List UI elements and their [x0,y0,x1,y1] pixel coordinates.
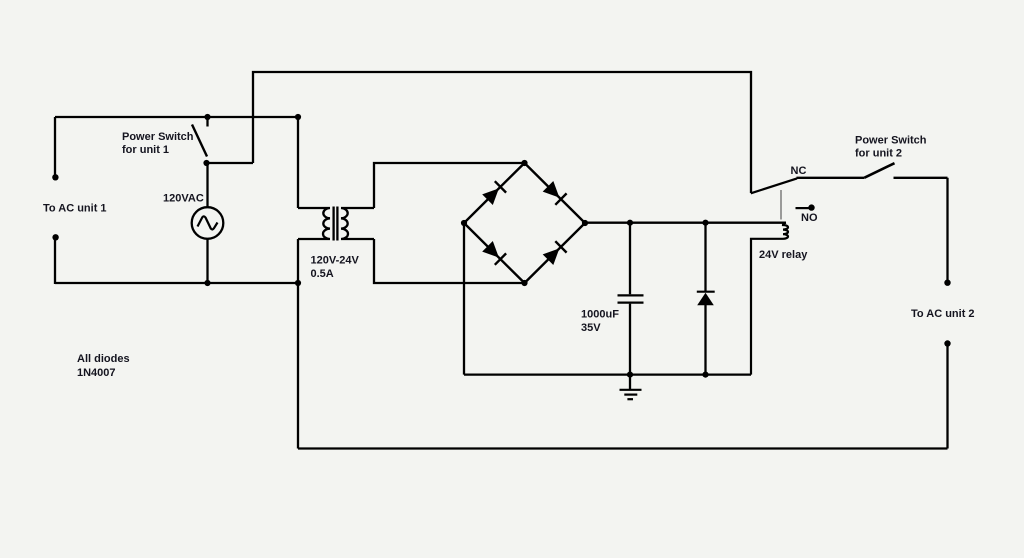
wire right riser lower [946,344,948,449]
transformer T1 primary [298,208,330,239]
capacitor C1 bottom lead [629,304,631,375]
node junction riser top [295,114,301,120]
node bridge top corner [521,160,527,166]
diode D2 (bridge top-right) [543,181,567,205]
node junction AC source bottom [204,280,210,286]
svg-text:Power Switch: Power Switch [122,131,194,143]
svg-text:NC: NC [791,165,807,177]
wire primary bottom to bottom rail [297,239,299,283]
wire switch1 to AC source [206,163,208,208]
diode D3 (bridge bottom-left) [482,241,506,265]
node junction cap top [627,220,633,226]
wire left vertical to long bottom rail [297,283,299,449]
switch S2 blade [864,163,894,178]
wire switch S2 to right riser [894,177,948,179]
switch S1 stub [206,117,208,127]
svg-text:1N4007: 1N4007 [77,367,116,379]
transformer T1 core [332,207,334,241]
relay NO contact line [796,207,810,209]
svg-text:To AC unit 1: To AC unit 1 [43,203,107,215]
node junction cap bottom [627,372,633,378]
diode D5 triangle [697,293,714,306]
wire top DC rail [585,222,786,224]
svg-text:0.5A: 0.5A [311,268,334,280]
wire left terminal lower [54,237,56,284]
node bridge left corner [461,220,467,226]
ground bars [620,389,642,391]
switch S1 blade [192,125,207,157]
wire left terminal upper [54,117,56,177]
svg-text:for unit 1: for unit 1 [122,144,169,156]
wire secondary top to bridge [374,163,525,208]
svg-text:To AC unit 2: To AC unit 2 [911,308,975,320]
capacitor C1 plates [618,294,644,296]
svg-text:All diodes: All diodes [77,353,130,365]
bridge BR1 diamond [464,163,585,283]
node junction primary bottom [295,280,301,286]
AC source V1 sine [198,216,218,229]
capacitor C1 top lead [629,223,631,295]
relay K1 coil [751,223,788,375]
node junction diode top [702,220,708,226]
node terminal AC2 lower [944,340,950,346]
diode D5 flyback top lead [704,223,706,292]
diode D5 cathode bar [697,291,715,293]
diode D5 bottom lead [704,305,706,375]
node junction switch1 top [204,114,210,120]
wire bottom DC rail [464,373,751,375]
node junction diode bottom [702,372,708,378]
diode D1 (bridge top-left) [482,181,506,205]
AC source V1 circle [192,207,224,239]
wire left top horizontal [55,116,298,118]
wire right riser upper [946,178,948,283]
svg-text:NO: NO [801,212,818,224]
node bridge bottom corner [521,280,527,286]
node bridge right corner [582,220,588,226]
wire AC source to bottom rail [206,239,208,283]
svg-text:24V relay: 24V relay [759,249,808,261]
wire bottom-left rail [55,282,298,284]
wire top rail [253,72,751,193]
node terminal AC2 upper [944,280,950,286]
relay linkage [780,190,782,220]
diode D4 (bridge bottom-right) [543,241,567,265]
node NO contact dot [808,204,814,210]
svg-text:35V: 35V [581,322,601,334]
ground stub [629,375,631,390]
svg-text:Power Switch: Power Switch [855,135,927,147]
node junction switch1 bottom [203,160,209,166]
wire switch1 output to riser [207,162,254,164]
node terminal AC1 upper [52,174,58,180]
svg-text:1000uF: 1000uF [581,309,619,321]
node terminal AC1 lower [52,234,58,240]
wire secondary bottom to bridge [374,239,525,283]
wire bridge left corner down [463,223,465,375]
wire riser x=298 upper [297,117,299,208]
relay NC contact wire [797,177,865,179]
relay armature blade [751,178,797,193]
svg-text:for unit 2: for unit 2 [855,148,902,160]
wire long bottom rail [298,447,948,449]
transformer T1 secondary [341,208,374,239]
svg-text:120V-24V: 120V-24V [311,255,360,267]
svg-text:120VAC: 120VAC [163,193,204,205]
